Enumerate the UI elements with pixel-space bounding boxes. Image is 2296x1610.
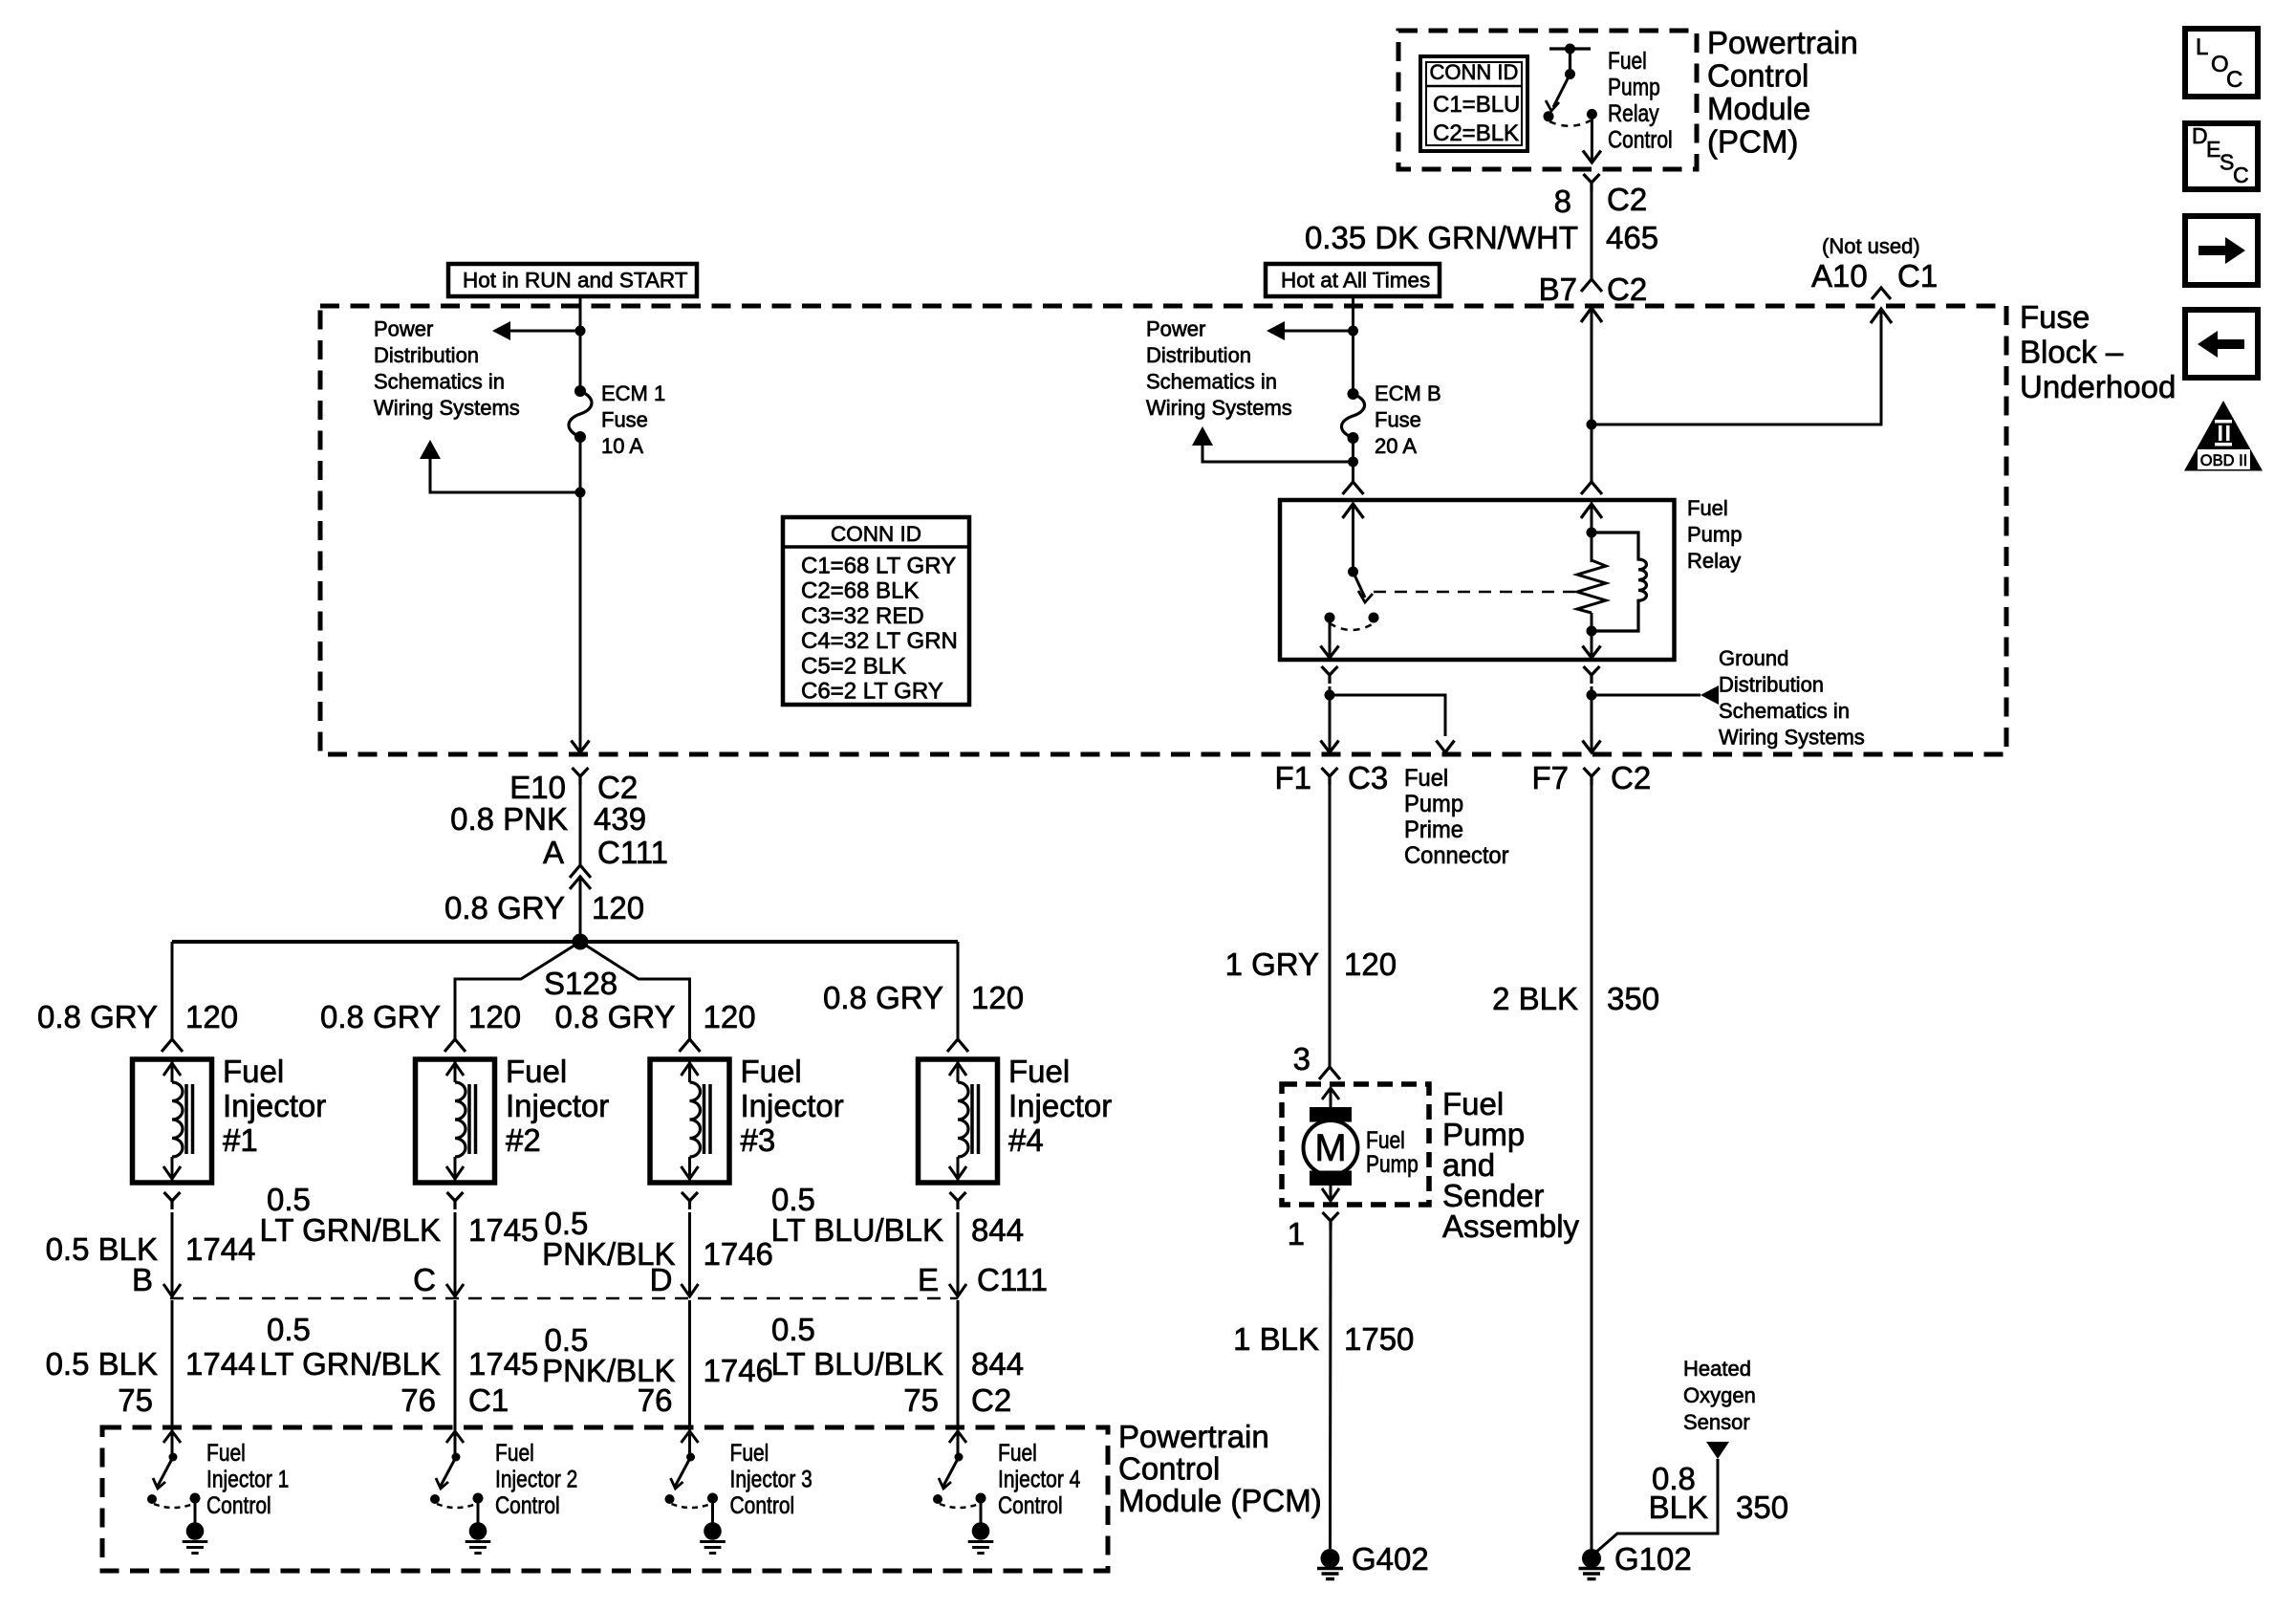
svg-text:Ground: Ground [1719, 646, 1788, 670]
svg-text:F1: F1 [1274, 760, 1311, 795]
svg-text:Injector 4: Injector 4 [998, 1466, 1080, 1492]
svg-text:1750: 1750 [1344, 1321, 1414, 1357]
svg-text:120: 120 [704, 999, 756, 1034]
label: B7 C2 [1539, 272, 1648, 307]
svg-text:1744: 1744 [185, 1231, 255, 1267]
svg-text:F7: F7 [1531, 760, 1569, 795]
svg-text:Fuel: Fuel [1608, 47, 1647, 74]
connector chevron into relay (switch side) [1343, 482, 1364, 494]
label: 0.5 PNK/BLK 1746 (lower) [542, 1322, 773, 1388]
svg-text:Pump: Pump [1366, 1150, 1419, 1177]
svg-text:120: 120 [468, 999, 521, 1034]
label: pins 75 76 C1 76 75 C2 [118, 1382, 1011, 1418]
svg-text:C1=68 LT GRY: C1=68 LT GRY [801, 554, 956, 579]
wire 465: PCM to fuse block [1591, 191, 1593, 279]
svg-text:G402: G402 [1352, 1541, 1429, 1577]
svg-text:L: L [2196, 34, 2208, 60]
node: junction of 465 wire and A10 branch [1587, 420, 1597, 430]
wire: injector 3 to C111 [682, 1212, 699, 1296]
svg-text:350: 350 [1736, 1490, 1788, 1525]
icon: OBD II triangle [2184, 401, 2263, 471]
svg-text:Wiring Systems: Wiring Systems [1146, 396, 1292, 420]
wire: injector 1 to C111 [163, 1212, 181, 1296]
wire: F1 to fuel pump [1329, 785, 1332, 1067]
fuse ECM B 20A [1341, 388, 1364, 444]
svg-text:Sensor: Sensor [1683, 1410, 1750, 1434]
label: 0.8 GRY 120 (injector 2) [320, 999, 521, 1034]
svg-text:465: 465 [1606, 220, 1658, 255]
svg-text:BLK: BLK [1649, 1490, 1708, 1525]
svg-text:0.8 GRY: 0.8 GRY [555, 999, 676, 1034]
connector below pump assembly [1288, 1212, 1339, 1251]
svg-text:Fuel: Fuel [206, 1439, 246, 1466]
svg-text:C3=32 RED: C3=32 RED [801, 603, 924, 629]
svg-text:C3: C3 [1348, 760, 1388, 795]
label: 2 BLK 350 [1492, 981, 1659, 1016]
label: 0.5 BLK 1744 (upper) [46, 1231, 256, 1267]
svg-text:120: 120 [1344, 946, 1397, 982]
wire: relay coil ground side down [1583, 631, 1601, 658]
label: ECM 1 Fuse 10 A [601, 381, 665, 458]
fuel injector #2 [416, 1059, 495, 1183]
svg-text:Assembly: Assembly [1442, 1208, 1580, 1244]
wire: relay switch output down [1321, 618, 1339, 658]
svg-text:75: 75 [118, 1382, 153, 1418]
svg-text:1744: 1744 [185, 1346, 255, 1382]
svg-text:Injector 3: Injector 3 [730, 1466, 812, 1492]
svg-text:C2=BLK: C2=BLK [1433, 120, 1519, 146]
svg-text:Injector: Injector [223, 1088, 326, 1123]
svg-text:75: 75 [903, 1382, 939, 1418]
svg-text:D: D [650, 1262, 673, 1297]
label: F7/C2 [1531, 760, 1651, 795]
wire: C111 to PCM (injector 3 control) [688, 1300, 691, 1430]
svg-text:0.8 GRY: 0.8 GRY [320, 999, 441, 1034]
icon: right arrow box [2185, 216, 2258, 285]
ground: injector 3 control [700, 1498, 726, 1554]
fuse block underhood dashed box [320, 306, 2006, 754]
svg-text:3: 3 [1293, 1041, 1310, 1077]
hot at all times box [1266, 264, 1440, 296]
svg-text:120: 120 [971, 980, 1024, 1015]
ground: injector 2 control [466, 1498, 491, 1554]
wire: Hot in RUN/START down to ECM1 fuse [579, 296, 582, 391]
svg-text:Wiring Systems: Wiring Systems [1719, 726, 1865, 750]
svg-text:0.8 GRY: 0.8 GRY [823, 980, 943, 1015]
svg-text:Injector 2: Injector 2 [495, 1466, 577, 1492]
svg-text:LT BLU/BLK: LT BLU/BLK [771, 1212, 943, 1248]
svg-text:Injector: Injector [1008, 1088, 1112, 1123]
motor: fuel pump [1304, 1088, 1358, 1201]
svg-text:Fuel: Fuel [998, 1439, 1037, 1466]
svg-text:0.35 DK GRN/WHT: 0.35 DK GRN/WHT [1305, 220, 1578, 255]
svg-text:Fuel: Fuel [1687, 496, 1728, 520]
svg-text:(PCM): (PCM) [1707, 124, 1798, 160]
wire: splice bus [172, 940, 958, 944]
fuel injector #3 [650, 1059, 729, 1183]
wire: C111 to PCM (injector 4 control) [957, 1300, 960, 1430]
splice S128 [544, 934, 617, 1002]
svg-text:E10: E10 [509, 770, 566, 805]
svg-text:1746: 1746 [704, 1236, 773, 1272]
svg-text:Injector 1: Injector 1 [206, 1466, 289, 1492]
label: pin 3 [1293, 1041, 1310, 1077]
label: Fuel Pump Relay [1687, 496, 1742, 573]
label: Powertrain Control Module (PCM) top [1707, 25, 1858, 160]
wire: Hot at All Times down to ECM B fuse [1352, 296, 1354, 394]
connector into pump assembly [1319, 1067, 1340, 1079]
label: Fuel Pump and Sender Assembly [1442, 1086, 1580, 1244]
svg-text:1745: 1745 [468, 1212, 538, 1248]
svg-text:1745: 1745 [468, 1346, 538, 1382]
svg-text:Relay: Relay [1687, 549, 1741, 573]
fuel injector #4 [919, 1059, 998, 1183]
svg-text:0.5: 0.5 [771, 1312, 815, 1347]
label: 0.35 DK GRN/WHT 465 [1305, 220, 1658, 255]
svg-text:CONN ID: CONN ID [831, 522, 921, 546]
label: Fuel Injector 4 Control [998, 1439, 1080, 1518]
svg-text:Control: Control [206, 1491, 271, 1518]
svg-text:Distribution: Distribution [1146, 343, 1251, 367]
svg-text:G102: G102 [1614, 1541, 1692, 1577]
fuel pump and sender assembly dashed box [1282, 1084, 1429, 1205]
icon: DESC box [2185, 123, 2258, 189]
conn id table (fuse block) [783, 517, 969, 705]
svg-text:M: M [1314, 1127, 1346, 1169]
label: 0.5 LT GRN/BLK 1745 (upper) [259, 1182, 538, 1248]
label: Fuel Injector #2 [506, 1054, 609, 1158]
svg-text:Fuel: Fuel [1404, 765, 1448, 792]
svg-text:C2: C2 [971, 1382, 1011, 1418]
svg-text:Control: Control [1707, 58, 1809, 94]
svg-text:0.8 GRY: 0.8 GRY [37, 999, 158, 1034]
label: 0.5 PNK/BLK 1746 (upper) [542, 1206, 773, 1272]
svg-text:Oxygen: Oxygen [1683, 1383, 1756, 1407]
svg-text:C111: C111 [977, 1262, 1048, 1297]
switch: fuel injector 2 control [430, 1431, 484, 1508]
connector at fuse block top (B7) [1581, 279, 1602, 322]
svg-text:0.8 GRY: 0.8 GRY [444, 890, 565, 925]
label: ECM B Fuse 20 A [1375, 381, 1441, 458]
svg-text:CONN ID: CONN ID [1430, 60, 1519, 84]
svg-text:8: 8 [1554, 184, 1571, 219]
svg-text:ECM 1: ECM 1 [601, 381, 665, 405]
svg-text:1 GRY: 1 GRY [1225, 946, 1319, 982]
svg-text:Control: Control [1118, 1451, 1220, 1487]
svg-text:Module: Module [1707, 91, 1810, 126]
powertrain control module (top) dashed box [1398, 31, 1697, 169]
svg-text:Powertrain: Powertrain [1707, 25, 1858, 60]
label: (Not used) [1822, 234, 1920, 258]
svg-text:Module (PCM): Module (PCM) [1118, 1483, 1322, 1518]
relay coil branch [1577, 504, 1606, 637]
fuse block label [2020, 299, 2176, 404]
wire: HO2S to G102 [1594, 1459, 1718, 1554]
wire: 465 inside fuse block to relay [1581, 308, 1602, 494]
label: 0.8 GRY 120 (injector 3) [555, 999, 756, 1034]
svg-text:Schematics in: Schematics in [374, 370, 505, 394]
svg-text:E: E [918, 1262, 939, 1297]
svg-text:Fuel: Fuel [730, 1439, 769, 1466]
label: ground distribution schematics [1719, 646, 1865, 750]
svg-text:1: 1 [1288, 1216, 1305, 1251]
wire: C111 to PCM (injector 1 control) [171, 1300, 174, 1430]
wire: C111 to PCM (injector 2 control) [454, 1300, 457, 1430]
connector E10/C2 [509, 768, 638, 805]
svg-text:0.5 BLK: 0.5 BLK [46, 1346, 158, 1382]
wire 439: E10 to C111 [579, 785, 582, 865]
svg-text:Schematics in: Schematics in [1719, 699, 1850, 723]
fuse ECM 1 10A [569, 385, 592, 443]
svg-text:2 BLK: 2 BLK [1492, 981, 1578, 1016]
label: 0.5 BLK 1744 (lower) [46, 1346, 256, 1382]
svg-text:Connector: Connector [1404, 842, 1509, 869]
label: power distribution schematics (right) [1146, 317, 1292, 421]
label: 0.8 GRY 120 (injector 1) [37, 999, 238, 1034]
connector below injector 3 [682, 1192, 698, 1209]
switch: fuel injector 4 control [933, 1431, 986, 1508]
wire 120: C111 to S128 [579, 877, 582, 942]
wire: A10 riser from 465 node [1592, 309, 1881, 424]
svg-text:C4=32 LT GRN: C4=32 LT GRN [801, 628, 958, 654]
label: Heated Oxygen Sensor [1683, 1357, 1756, 1434]
svg-text:Prime: Prime [1404, 816, 1463, 843]
svg-text:C1: C1 [1897, 258, 1938, 294]
svg-text:439: 439 [594, 801, 646, 837]
connector F1/C3 [1274, 760, 1388, 795]
svg-text:120: 120 [592, 890, 644, 925]
label: 1 BLK 1750 [1233, 1321, 1414, 1357]
svg-text:OBD II: OBD II [2200, 452, 2248, 469]
svg-text:Schematics in: Schematics in [1146, 370, 1277, 394]
svg-text:C1: C1 [468, 1382, 509, 1418]
wire: below ECM1 fuse to bottom of fuse block [572, 437, 590, 752]
svg-text:120: 120 [185, 999, 238, 1034]
svg-text:1 BLK: 1 BLK [1233, 1321, 1319, 1357]
switch: fuel pump relay control driver [1544, 44, 1597, 126]
svg-text:1746: 1746 [704, 1353, 773, 1388]
svg-text:Injector: Injector [741, 1088, 844, 1123]
svg-text:Pump: Pump [1608, 74, 1660, 100]
svg-text:C: C [413, 1262, 436, 1297]
label: 0.5 LT GRN/BLK 1745 (lower) [259, 1312, 538, 1382]
connector below relay (coil out) [1584, 666, 1600, 684]
fuel pump relay box [1280, 500, 1675, 660]
svg-text:B: B [132, 1262, 153, 1297]
icon: LOC box [2185, 29, 2258, 97]
conn id box (pcm) [1420, 56, 1527, 151]
svg-text:LT GRN/BLK: LT GRN/BLK [259, 1346, 441, 1382]
node: junction below ECM B fuse [1348, 457, 1358, 468]
svg-text:C: C [2226, 67, 2242, 93]
svg-text:20 A: 20 A [1375, 434, 1417, 458]
svg-text:Relay: Relay [1608, 99, 1659, 126]
label: 0.5 LT BLU/BLK 844 (upper) [771, 1182, 1024, 1248]
svg-text:Power: Power [1146, 317, 1205, 341]
svg-text:Fuel: Fuel [223, 1054, 284, 1089]
svg-text:C1=BLU: C1=BLU [1433, 92, 1520, 118]
svg-text:C6=2 LT GRY: C6=2 LT GRY [801, 679, 943, 705]
ground G402 [1317, 1541, 1429, 1579]
svg-text:Powertrain: Powertrain [1118, 1419, 1269, 1454]
hot in run and start box [448, 264, 697, 296]
wire: L-branch with up arrow (power distribution) [420, 440, 580, 492]
svg-text:76: 76 [401, 1382, 436, 1418]
wire: branch to injector 3 [580, 942, 701, 1052]
svg-text:Fuse: Fuse [2020, 299, 2090, 335]
connector below injector 1 [164, 1192, 181, 1209]
label: pins B C D E C111 [132, 1262, 1048, 1297]
svg-text:C2: C2 [597, 770, 638, 805]
svg-text:C5=2 BLK: C5=2 BLK [801, 653, 906, 679]
svg-text:Heated: Heated [1683, 1357, 1751, 1381]
label: 0.8 GRY 120 (injector 4) [823, 980, 1024, 1015]
node: F1 junction + prime connector stub [1321, 686, 1455, 752]
svg-text:C2: C2 [1607, 182, 1647, 217]
svg-text:Hot at All Times: Hot at All Times [1281, 269, 1430, 293]
svg-text:Fuse: Fuse [1375, 408, 1421, 432]
node: junction on ECM1 feed [575, 326, 586, 337]
connector A/C111 inline [543, 835, 668, 889]
svg-text:C: C [2233, 163, 2249, 187]
relay switch (inside) [1325, 504, 1379, 630]
ground: injector 4 control [968, 1498, 994, 1554]
svg-text:S128: S128 [544, 966, 617, 1001]
label: Fuel Pump (motor) [1366, 1126, 1419, 1177]
ground G102 [1579, 1541, 1692, 1579]
svg-text:Fuel: Fuel [495, 1439, 534, 1466]
svg-text:C2: C2 [1611, 760, 1651, 795]
wire: F7 to G102 [1591, 785, 1593, 1550]
wire: L-branch with up arrow (power distribution right) [1192, 426, 1354, 462]
svg-text:C111: C111 [597, 835, 668, 870]
svg-text:LT GRN/BLK: LT GRN/BLK [259, 1212, 441, 1248]
connector below relay (switch out) [1322, 666, 1338, 684]
svg-text:Hot in RUN and START: Hot in RUN and START [463, 269, 688, 293]
switch: fuel injector 3 control [665, 1431, 719, 1508]
svg-text:C2: C2 [1607, 272, 1647, 307]
svg-text:0.5: 0.5 [267, 1312, 311, 1347]
wire: relay control out of PCM [1583, 114, 1601, 163]
label: 1 GRY 120 [1225, 946, 1397, 982]
svg-text:#4: #4 [1008, 1122, 1044, 1158]
powertrain control module (bottom) dashed box [102, 1427, 1108, 1571]
wire: branch to injector 1 [162, 942, 183, 1052]
svg-text:ECM B: ECM B [1375, 381, 1441, 405]
svg-text:844: 844 [971, 1346, 1024, 1382]
wire: power distribution ref arrow (left) [492, 321, 580, 340]
svg-text:Distribution: Distribution [1719, 673, 1824, 697]
relay mechanical dashed link [1374, 591, 1575, 594]
svg-text:B7: B7 [1539, 272, 1577, 307]
wire: pump to G402 [1329, 1229, 1332, 1549]
wire: branch to injector 4 [947, 942, 968, 1052]
svg-text:Control: Control [730, 1491, 795, 1518]
connector 8/C2 below PCM [1554, 174, 1648, 219]
svg-text:Fuel: Fuel [506, 1054, 567, 1089]
svg-text:Power: Power [374, 317, 433, 341]
svg-text:0.8 PNK: 0.8 PNK [450, 801, 568, 837]
label: Fuel Injector 2 Control [495, 1439, 577, 1518]
svg-text:A: A [543, 835, 564, 870]
svg-text:Pump: Pump [1687, 523, 1742, 547]
connector C111 dashed line [170, 1297, 958, 1300]
label: Fuel Injector 3 Control [730, 1439, 812, 1518]
connector below injector 4 [950, 1192, 966, 1209]
wire: injector 2 to C111 [446, 1212, 464, 1296]
label: Fuel Pump Relay Control [1608, 47, 1673, 153]
wire: ECM B fuse to relay connector [1352, 438, 1354, 482]
label: 0.5 LT BLU/BLK 844 (lower) [771, 1312, 1024, 1382]
svg-text:Control: Control [1608, 126, 1673, 153]
icon: left arrow box [2185, 310, 2258, 378]
label: Fuel Injector 1 Control [206, 1439, 289, 1518]
svg-text:#1: #1 [223, 1122, 258, 1158]
svg-text:844: 844 [971, 1212, 1024, 1248]
connector below injector 2 [447, 1192, 464, 1209]
svg-text:Fuel: Fuel [1008, 1054, 1070, 1089]
label: Powertrain Control Module (PCM) bottom [1118, 1419, 1322, 1518]
svg-text:Distribution: Distribution [374, 343, 479, 367]
svg-text:Control: Control [495, 1491, 560, 1518]
relay coil inductor loop [1592, 533, 1647, 631]
label: Fuel Pump Prime Connector [1404, 765, 1509, 869]
svg-text:#3: #3 [741, 1122, 776, 1158]
svg-text:Fuse: Fuse [601, 408, 648, 432]
svg-text:Control: Control [998, 1491, 1063, 1518]
svg-text:Underhood: Underhood [2020, 369, 2176, 404]
label: 0.8 PNK 439 [450, 801, 646, 837]
label: Fuel Injector #1 [223, 1054, 326, 1158]
ground: injector 1 control [183, 1498, 208, 1554]
svg-text:Block –: Block – [2020, 335, 2124, 370]
label: 0.8 BLK 350 [1649, 1461, 1788, 1525]
svg-text:(Not used): (Not used) [1822, 234, 1920, 258]
fuel injector #1 [133, 1059, 212, 1183]
svg-text:350: 350 [1607, 981, 1659, 1016]
sensor lead triangle [1706, 1442, 1729, 1459]
svg-text:10 A: 10 A [601, 434, 643, 458]
svg-text:Injector: Injector [506, 1088, 609, 1123]
svg-text:Fuel: Fuel [741, 1054, 802, 1089]
node: junction on ECM B feed [1348, 326, 1358, 337]
switch: fuel injector 1 control [147, 1431, 201, 1508]
svg-text:Fuel: Fuel [1366, 1126, 1405, 1153]
wire: branch to injector 2 [444, 942, 580, 1052]
svg-text:Wiring Systems: Wiring Systems [374, 396, 520, 420]
label: Fuel Injector #3 [741, 1054, 844, 1158]
wire: power distribution ref arrow (right) [1267, 321, 1354, 340]
svg-text:76: 76 [638, 1382, 673, 1418]
label: power distribution schematics (left) [374, 317, 520, 421]
node: junction below ECM1 fuse [575, 488, 586, 498]
svg-text:C2=68 BLK: C2=68 BLK [801, 578, 919, 604]
svg-text:Pump: Pump [1404, 791, 1463, 817]
node: F7 junction + ground distribution arrow [1583, 685, 1720, 752]
label: 0.8 GRY 120 (feed) [444, 890, 644, 925]
svg-text:LT BLU/BLK: LT BLU/BLK [771, 1346, 943, 1382]
wire: injector 4 to C111 [949, 1212, 966, 1296]
label: A10 C1 [1811, 258, 1938, 294]
svg-text:#2: #2 [506, 1122, 541, 1158]
label: Fuel Injector #4 [1008, 1054, 1112, 1158]
svg-text:A10: A10 [1811, 258, 1868, 294]
connector A10/C1 (not used) [1871, 288, 1892, 323]
